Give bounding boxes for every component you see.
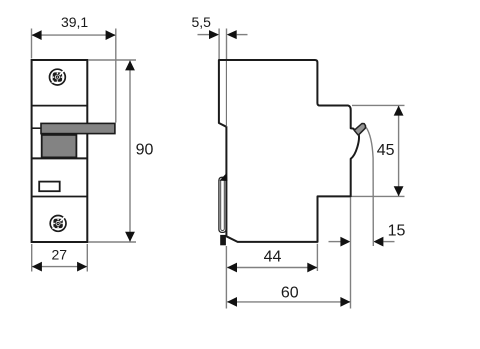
svg-text:90: 90: [136, 141, 154, 158]
front view section line 2: [32, 157, 88, 159]
dimension 27 extension line left: [31, 244, 33, 272]
dimension 39,1 arrow left: [32, 30, 42, 40]
DIN rail clip inner: [221, 179, 225, 230]
dimension 27 extension line right: [86, 244, 88, 272]
dimension 60 arrow right: [340, 297, 350, 307]
front view recess line: [32, 127, 42, 129]
dimension 45 arrow up: [394, 106, 404, 116]
dimension 5,5 extension line right: [226, 29, 228, 60]
dimension 90 arrow up: [125, 60, 135, 70]
screw top: [50, 69, 66, 85]
dimension 5,5 tail right: [237, 34, 248, 36]
dimension 27 arrow left: [32, 262, 42, 272]
dimension 90 extension line top: [89, 59, 137, 61]
dimension 90 line: [129, 61, 131, 242]
dimension 15 arrow left: [340, 237, 350, 247]
svg-text:60: 60: [281, 284, 299, 301]
dimension 45 extension line top: [352, 104, 405, 106]
screw bottom: [50, 216, 66, 232]
label window: [39, 182, 60, 192]
dimension 44 arrow left: [227, 263, 237, 273]
toggle base front (gray block): [42, 135, 77, 158]
dimension 90 arrow down: [125, 232, 135, 242]
extension line rear lower (for 44 and 60): [225, 246, 227, 309]
dimension 45 line: [398, 106, 400, 196]
dimension 27 line: [32, 266, 87, 268]
dimension 45 arrow down: [394, 186, 404, 196]
dimension 39,1 line: [32, 34, 116, 36]
front view section line 3: [32, 196, 88, 198]
dimension 5,5 extension line left: [218, 29, 220, 60]
dimension 44 line: [227, 267, 317, 269]
svg-text:45: 45: [377, 142, 395, 159]
svg-text:15: 15: [388, 223, 406, 240]
toggle handle front (gray bar): [41, 123, 115, 133]
DIN rail clip foot (bottom): [220, 235, 226, 245]
dimension 39,1 arrow right: [106, 30, 116, 40]
front view section line 1: [32, 105, 88, 107]
dimension 5,5 arrow left: [209, 30, 219, 39]
DIN rail clip hook (top): [220, 173, 228, 181]
dimension 15 arrow right: [373, 237, 383, 247]
dimension 39,1 extension line left: [31, 29, 33, 59]
front view body outline: [32, 60, 88, 242]
dimension 90 extension line bottom: [89, 241, 137, 243]
dimension 45 extension line bottom: [352, 195, 405, 197]
svg-text:39,1: 39,1: [61, 14, 88, 30]
dimension 5,5 arrow right: [227, 30, 237, 39]
dimension 27 arrow right: [77, 262, 87, 272]
svg-text:27: 27: [52, 246, 68, 262]
dimension 60 line: [227, 301, 350, 303]
dimension 60 arrow left: [227, 297, 237, 307]
dimension 15 left tail: [329, 241, 341, 243]
dimension 5,5 tail left: [198, 34, 210, 36]
dimension 39,1 extension line right: [115, 29, 117, 123]
toggle handle side (gray knob): [354, 124, 365, 136]
DIN rail clip outer: [219, 177, 226, 232]
toggle travel arc (thin): [365, 126, 373, 246]
dimension 44 extension line right: [316, 244, 318, 271]
extension line front face (for 15 and 60): [350, 198, 352, 309]
inner contour line (rear step): [225, 61, 227, 127]
side view body outline: [219, 60, 359, 242]
dimension 15 right tail: [383, 241, 394, 243]
dimension 44 arrow right: [307, 263, 317, 273]
svg-text:5,5: 5,5: [191, 14, 211, 30]
svg-text:44: 44: [264, 248, 282, 265]
